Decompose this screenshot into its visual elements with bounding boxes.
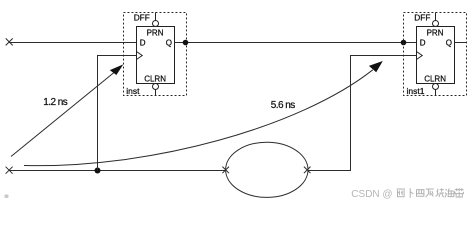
svg-text:inst1: inst1 xyxy=(407,86,425,96)
junction J2 on Q1 net xyxy=(183,40,189,46)
junction J3 on D2 net xyxy=(401,40,407,46)
watermark CJK glyph blocks xyxy=(397,188,464,198)
node x ellipse-left xyxy=(222,167,229,174)
net ellipse highlight xyxy=(226,142,308,197)
glyph si xyxy=(417,190,424,197)
svg-text:5.6 ns: 5.6 ns xyxy=(271,100,295,111)
wire clock riser to DFF1 xyxy=(98,56,138,171)
delay arrow 5.6ns head xyxy=(369,61,383,72)
DFF2 PRN pin stub and bubble xyxy=(433,13,439,27)
glyph hai xyxy=(445,188,454,197)
DFF2 body U2 xyxy=(417,27,455,84)
wire riser to DFF2 clock xyxy=(351,56,417,171)
junction J1 on clock net xyxy=(95,168,101,174)
DFF1 body U1 xyxy=(137,27,175,84)
svg-text:Q: Q xyxy=(446,38,452,47)
DFF2 CLRN pin bubble and stub xyxy=(433,84,439,96)
svg-text:PRN: PRN xyxy=(427,28,444,37)
svg-text:D: D xyxy=(420,38,426,47)
input port pin1 (top-left x) xyxy=(6,38,13,45)
svg-text:PRN: PRN xyxy=(147,28,164,37)
svg-text:CSDN @: CSDN @ xyxy=(351,189,392,200)
svg-text:D: D xyxy=(140,38,146,47)
glyph shao xyxy=(436,188,444,197)
input port pin2 (bottom-left x) xyxy=(6,167,13,174)
glyph dai xyxy=(455,188,464,198)
glyph liang xyxy=(397,189,405,197)
DFF1 CLRN pin bubble and stub xyxy=(153,84,159,96)
svg-text:DFF: DFF xyxy=(414,13,430,23)
DFF1 dashed boundary inst xyxy=(124,13,187,96)
DFF1 PRN pin stub and bubble xyxy=(153,13,159,27)
wire DFF1.Q to DFF2.D xyxy=(175,42,417,44)
svg-text:1.2 ns: 1.2 ns xyxy=(43,97,67,108)
delay arrow 1.2ns head xyxy=(110,64,124,75)
svg-text:CLRN: CLRN xyxy=(424,75,446,84)
glyph gua xyxy=(426,189,434,197)
artifact smudge bottom-left xyxy=(5,195,9,199)
svg-text:Q: Q xyxy=(166,38,172,47)
DFF2 dashed boundary inst1 xyxy=(404,13,467,96)
delay arrow 5.6ns shaft (curved) xyxy=(24,70,373,166)
wire ellipse right to riser xyxy=(308,170,351,172)
DFF2 clock triangle xyxy=(417,52,423,60)
delay arrow 1.2ns shaft xyxy=(11,72,115,156)
svg-text:CLRN: CLRN xyxy=(144,75,166,84)
node x ellipse-right xyxy=(304,167,311,174)
svg-text:inst: inst xyxy=(126,86,140,96)
wire pin1 to DFF1.D xyxy=(9,42,137,44)
wire DFF2.Q to boundary xyxy=(455,42,467,44)
wire pin2 to ellipse left xyxy=(9,170,226,172)
svg-text:DFF: DFF xyxy=(134,13,150,23)
DFF1 clock triangle xyxy=(137,52,143,60)
glyph bu xyxy=(410,188,413,197)
